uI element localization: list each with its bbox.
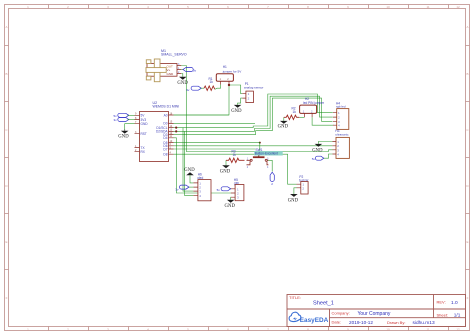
motor M1 SMALL_SERVO bbox=[146, 49, 187, 82]
svg-text:GND: GND bbox=[231, 109, 242, 114]
svg-text:1/1: 1/1 bbox=[454, 312, 461, 317]
junction on D1 for oled bbox=[175, 127, 177, 129]
svg-text:3v: 3v bbox=[114, 118, 118, 122]
connector H1 jumper for 5V bbox=[216, 65, 242, 85]
wire D5 to button bbox=[174, 143, 260, 156]
svg-text:GND: GND bbox=[220, 169, 231, 174]
svg-text:10: 10 bbox=[386, 327, 390, 331]
wire H2 pin1 to R2 bbox=[299, 116, 304, 118]
svg-text:analog sensor: analog sensor bbox=[244, 85, 263, 89]
svg-text:B: B bbox=[466, 72, 468, 76]
net flag 5v at H3 pin4 bbox=[312, 154, 333, 161]
svg-text:GND: GND bbox=[288, 198, 299, 203]
connector H6 oled bbox=[193, 173, 211, 201]
svg-text:12: 12 bbox=[456, 5, 460, 9]
connector H2 led PIN jumper bbox=[300, 97, 325, 117]
resistor R2 1k bbox=[284, 107, 300, 120]
svg-text:12: 12 bbox=[456, 327, 460, 331]
net flag 5v at U2 5V pin bbox=[114, 113, 135, 118]
svg-text:5v: 5v bbox=[193, 69, 197, 73]
svg-text:2019-10-12: 2019-10-12 bbox=[349, 320, 373, 325]
svg-text:EasyEDA: EasyEDA bbox=[300, 317, 329, 324]
net flag 5v at H5 pin1 bbox=[217, 187, 231, 192]
svg-text:led PIN jumper: led PIN jumper bbox=[303, 101, 325, 105]
wire P1 pin2 to ground bbox=[238, 98, 243, 105]
wire H5 pin3 to ground bbox=[230, 197, 232, 200]
junction on D5 at button branch bbox=[259, 142, 261, 144]
svg-text:REV:: REV: bbox=[437, 300, 446, 305]
resistor R3 1k bbox=[226, 150, 245, 163]
svg-text:Company:: Company: bbox=[332, 311, 350, 316]
svg-text:Drawn By:: Drawn By: bbox=[387, 320, 405, 325]
wire servo GND pin down bbox=[181, 74, 183, 77]
wire P2 pin2 to ground bbox=[294, 188, 297, 194]
svg-text:GND: GND bbox=[278, 125, 289, 130]
svg-text:Your Company: Your Company bbox=[358, 311, 391, 317]
connector P2 buzzer bbox=[297, 175, 310, 194]
ground at H3 pin1 bbox=[312, 144, 323, 153]
wire H3 pin1 to ground bbox=[318, 142, 332, 144]
wire D8 to buzzer pin1 bbox=[174, 154, 297, 184]
U2 right pins A0 D0-D8 bbox=[169, 115, 174, 154]
wire D4 to ir pin2 bbox=[174, 138, 231, 193]
ground at R2 bbox=[278, 117, 289, 129]
svg-text:10: 10 bbox=[386, 5, 390, 9]
wire node down to A0 bbox=[174, 85, 230, 115]
svg-text:GND: GND bbox=[167, 72, 175, 76]
connector P1 analog sensor bbox=[242, 82, 263, 103]
connector H5 IR bbox=[231, 178, 244, 201]
svg-text:E: E bbox=[5, 240, 7, 244]
svg-text:5v: 5v bbox=[217, 188, 221, 192]
net flag 3v at R1 left bbox=[186, 86, 204, 92]
svg-text:ultrasonic: ultrasonic bbox=[335, 132, 349, 136]
svg-text:jumper for 5V: jumper for 5V bbox=[222, 69, 243, 73]
svg-text:D7: D7 bbox=[163, 147, 167, 151]
svg-text:B: B bbox=[5, 72, 7, 76]
svg-text:sidhu.m13: sidhu.m13 bbox=[413, 320, 435, 326]
wire D3 to rgb led pin3 bbox=[174, 98, 333, 134]
wire D1/SCL to rgb led pin1 bbox=[174, 94, 333, 128]
switch SW1 Button-Excellent bbox=[247, 148, 283, 169]
svg-text:A: A bbox=[5, 25, 7, 29]
svg-text:H1: H1 bbox=[223, 65, 227, 69]
net flag 2 vertical bbox=[270, 172, 274, 186]
svg-text:GND: GND bbox=[118, 135, 129, 140]
svg-text:Sheet_1: Sheet_1 bbox=[313, 300, 334, 306]
svg-text:GND: GND bbox=[184, 168, 195, 173]
svg-text:RST: RST bbox=[141, 132, 147, 136]
svg-text:1k: 1k bbox=[210, 80, 214, 84]
junction on D2 for oled bbox=[175, 130, 177, 132]
svg-text:D4: D4 bbox=[163, 136, 167, 140]
svg-text:Date:: Date: bbox=[332, 319, 342, 324]
svg-text:E: E bbox=[466, 240, 468, 244]
wire SW1 right to flag 2 bbox=[268, 160, 272, 171]
svg-text:3v: 3v bbox=[175, 187, 179, 191]
svg-text:1k: 1k bbox=[293, 110, 297, 114]
svg-text:A0: A0 bbox=[164, 113, 168, 117]
connector H4 rgb led bbox=[333, 102, 349, 130]
svg-text:F: F bbox=[467, 296, 469, 300]
TITLE BLOCK bbox=[287, 295, 466, 327]
EasyEDA logo bbox=[289, 312, 328, 324]
wire D7 bbox=[174, 148, 256, 150]
resistor R1 1k bbox=[204, 77, 215, 91]
net flag 3v at U2 3V3 pin bbox=[114, 118, 135, 123]
ground at P1 bbox=[231, 105, 242, 114]
wire U2 GND pin to ground bbox=[125, 124, 135, 130]
wire H1 pin2 node to P1 and A0 bbox=[229, 85, 242, 94]
wire D2/SDA to rgb led pin2 bbox=[174, 96, 333, 131]
svg-text:F: F bbox=[6, 296, 8, 300]
ground at P2 bbox=[288, 194, 299, 203]
wire H2 pin2 to rgb led pin4 bbox=[312, 117, 334, 125]
net flag 5v at servo V+ bbox=[181, 68, 196, 73]
wire D6 to ultrasonic pin2 bbox=[174, 145, 333, 147]
SCHEMATIC bbox=[114, 49, 350, 209]
svg-text:1k: 1k bbox=[233, 153, 237, 157]
svg-text:GND: GND bbox=[141, 122, 149, 126]
svg-text:5v: 5v bbox=[312, 157, 316, 161]
svg-text:11: 11 bbox=[426, 327, 429, 331]
ground at H6 pin1 (inverted) bbox=[184, 168, 195, 183]
svg-text:A: A bbox=[466, 25, 468, 29]
wire A0 to H1 node bbox=[174, 114, 230, 116]
connector H3 ultrasonic bbox=[332, 129, 349, 159]
ground at servo bbox=[177, 77, 188, 86]
wire D1 branch to oled SCL bbox=[183, 128, 193, 192]
svg-text:Sheet:: Sheet: bbox=[437, 312, 449, 317]
wire D0 bbox=[174, 122, 256, 124]
net flag 3v at H6 pin2 bbox=[175, 185, 193, 191]
svg-text:1.0: 1.0 bbox=[451, 300, 458, 306]
svg-text:GND: GND bbox=[177, 81, 188, 86]
svg-text:SMALL_SERVO: SMALL_SERVO bbox=[161, 52, 187, 56]
ground at H5 bbox=[225, 200, 236, 209]
svg-text:TITLE:: TITLE: bbox=[289, 295, 301, 300]
svg-text:Button-Excellent: Button-Excellent bbox=[255, 152, 278, 156]
U2 left pins 5V 3V3 GND RST TX RX bbox=[135, 115, 140, 151]
svg-text:WEMOS D1 MINI: WEMOS D1 MINI bbox=[153, 104, 180, 108]
svg-text:3v: 3v bbox=[186, 88, 190, 92]
svg-text:D8: D8 bbox=[163, 153, 167, 157]
IC U2 WEMOS D1 MINI body bbox=[140, 101, 180, 162]
svg-text:rgb led: rgb led bbox=[336, 104, 346, 108]
svg-text:GND: GND bbox=[312, 148, 323, 153]
junction node at H1 pin2 bbox=[228, 84, 230, 86]
ground at U2 GND bbox=[118, 130, 129, 140]
wire servo OUT down long vertical bbox=[181, 66, 332, 152]
wire D2 branch to oled SDA bbox=[184, 131, 193, 195]
svg-text:11: 11 bbox=[426, 5, 429, 9]
svg-text:GND: GND bbox=[225, 204, 236, 209]
wire R1 right to H1 pin1 bbox=[215, 85, 221, 90]
ground at R3 bbox=[220, 160, 231, 174]
